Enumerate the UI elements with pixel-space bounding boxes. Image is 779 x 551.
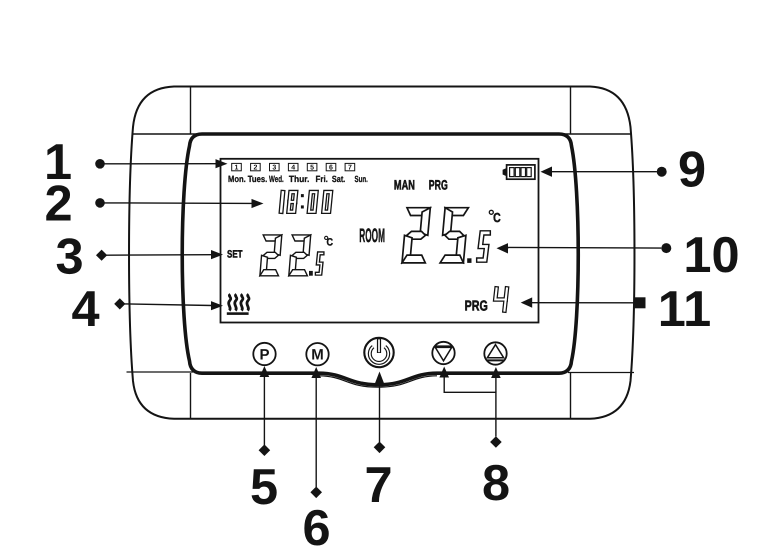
button M <box>306 343 328 365</box>
power button <box>364 338 393 367</box>
bezel left upper seam <box>190 88 192 135</box>
callout 9 <box>541 140 707 197</box>
thermostat outer body <box>129 87 634 419</box>
callout 7 <box>364 372 392 514</box>
bezel top seam line <box>132 133 632 135</box>
battery icon <box>503 165 535 179</box>
svg-text:C: C <box>327 236 334 248</box>
svg-text:9: 9 <box>678 140 706 197</box>
button P <box>253 343 275 365</box>
svg-text:C: C <box>493 210 501 225</box>
svg-text:5: 5 <box>310 165 314 172</box>
down button <box>432 342 454 364</box>
callout 1 <box>44 133 228 190</box>
time 18:00 <box>281 192 331 212</box>
svg-text:8: 8 <box>482 454 510 511</box>
degree C set <box>325 236 334 248</box>
svg-text:2: 2 <box>253 165 257 172</box>
callout 4 <box>71 280 223 337</box>
set temperature 22.5 <box>260 235 323 276</box>
front face plate <box>182 134 578 385</box>
svg-text:MAN: MAN <box>394 178 415 193</box>
svg-text:5: 5 <box>250 458 278 515</box>
program number 4 <box>495 288 507 310</box>
svg-text:PRG: PRG <box>465 299 488 315</box>
svg-text:M: M <box>311 347 324 364</box>
bezel left lower seam <box>190 373 192 418</box>
svg-text:2: 2 <box>44 175 72 232</box>
svg-text:SET: SET <box>227 249 243 261</box>
svg-text:6: 6 <box>302 499 330 551</box>
svg-text:10: 10 <box>683 226 739 283</box>
degree C room <box>489 210 501 225</box>
svg-text:Wed.: Wed. <box>269 174 284 184</box>
bezel right lower seam <box>570 373 572 418</box>
callout 2 <box>44 175 263 232</box>
day names row <box>228 174 368 184</box>
LCD display window <box>221 159 539 323</box>
callout 6 <box>302 367 330 551</box>
up button <box>484 342 506 364</box>
svg-text:7: 7 <box>348 165 352 172</box>
callout 5 <box>250 366 278 515</box>
svg-text:Sat.: Sat. <box>332 174 345 184</box>
svg-text:Thur.: Thur. <box>289 174 310 184</box>
callout 11 <box>521 280 711 337</box>
svg-text:P: P <box>259 347 269 364</box>
heating flame icon <box>227 294 249 315</box>
svg-text:3: 3 <box>55 227 83 284</box>
svg-text:3: 3 <box>272 165 276 172</box>
day-of-week number boxes 1-7 <box>232 163 355 171</box>
room temperature 25.5 <box>402 208 488 263</box>
svg-text:Fri.: Fri. <box>316 174 328 184</box>
face bottom echo line <box>319 376 437 387</box>
svg-text:PRG: PRG <box>429 178 448 193</box>
svg-text:Tues.: Tues. <box>248 174 268 184</box>
svg-text:7: 7 <box>364 456 392 513</box>
callout 3 <box>55 227 223 284</box>
svg-text:4: 4 <box>291 165 295 172</box>
svg-text:ROOM: ROOM <box>359 225 385 247</box>
svg-text:4: 4 <box>71 280 99 337</box>
svg-text:Mon.: Mon. <box>228 174 246 184</box>
svg-text:Sun.: Sun. <box>355 174 368 184</box>
svg-text:1: 1 <box>235 165 239 172</box>
callout 10 <box>497 226 740 283</box>
svg-text:6: 6 <box>329 165 333 172</box>
svg-text:11: 11 <box>658 280 711 337</box>
bezel right upper seam <box>570 88 572 135</box>
bezel bottom-left seam line <box>127 371 194 373</box>
bezel bottom-right seam line <box>568 372 634 374</box>
callout 8 <box>439 367 510 512</box>
